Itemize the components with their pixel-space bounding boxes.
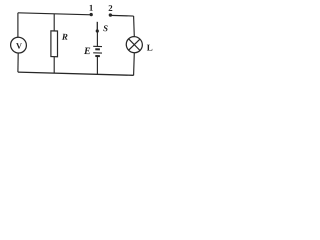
wire resistor bottom lead xyxy=(53,57,55,74)
svg-text:2: 2 xyxy=(108,3,113,13)
svg-text:L: L xyxy=(147,42,153,52)
node 2 xyxy=(109,13,112,16)
svg-text:1: 1 xyxy=(89,3,93,13)
wire left rail lower xyxy=(17,53,19,72)
wire battery to bottom xyxy=(96,56,98,74)
wire top-left segment xyxy=(18,13,91,15)
switch S blade xyxy=(96,22,98,31)
node 1 xyxy=(90,13,93,16)
battery E cell2 short plate xyxy=(95,55,100,57)
wire left rail upper xyxy=(17,13,19,38)
wire resistor top lead xyxy=(53,14,55,31)
switch S pole dot xyxy=(96,29,99,32)
svg-text:E: E xyxy=(83,46,91,57)
voltmeter V xyxy=(11,37,27,53)
wire top-right segment xyxy=(110,14,133,17)
lamp L xyxy=(126,36,142,53)
resistor R xyxy=(51,31,58,57)
wire right rail upper xyxy=(133,16,136,37)
battery E cell1 long plate xyxy=(93,45,102,47)
svg-text:R: R xyxy=(61,32,68,42)
battery E cell2 long plate xyxy=(93,52,102,54)
wire bottom rail xyxy=(18,72,134,75)
battery E cell1 short plate xyxy=(95,48,100,50)
svg-text:V: V xyxy=(16,42,22,51)
svg-text:S: S xyxy=(103,23,108,33)
wire right rail lower xyxy=(133,53,136,76)
wire switch to battery xyxy=(96,31,98,46)
